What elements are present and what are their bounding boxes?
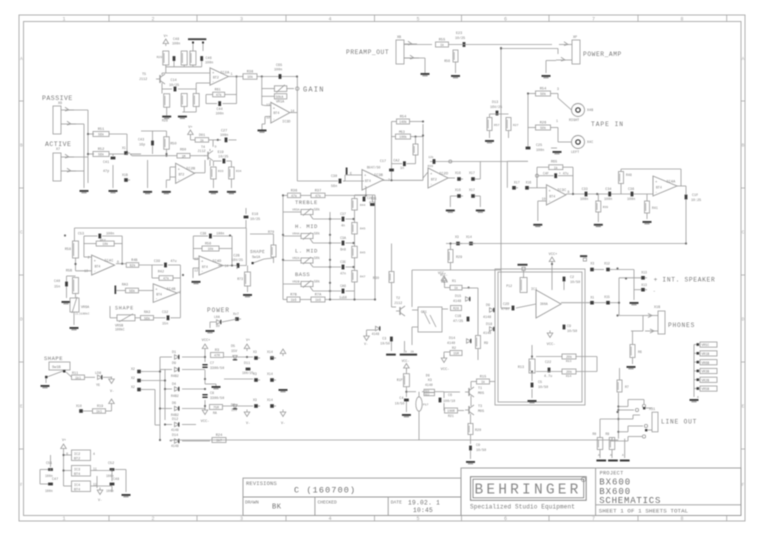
svg-text:56k: 56k <box>98 153 104 157</box>
svg-text:R45: R45 <box>360 252 366 255</box>
svg-text:IC4A: IC4A <box>666 180 676 184</box>
svg-text:D9: D9 <box>172 362 176 366</box>
svg-text:15n: 15n <box>54 286 60 290</box>
svg-text:R20: R20 <box>475 429 481 433</box>
svg-text:IC4: IC4 <box>74 484 80 488</box>
svg-text:47p: 47p <box>103 170 109 174</box>
svg-text:R4B2: R4B2 <box>171 413 179 417</box>
svg-text:R34: R34 <box>236 170 242 173</box>
svg-text:100n: 100n <box>604 198 612 202</box>
svg-text:75R: 75R <box>213 406 219 410</box>
svg-text:47k: 47k <box>216 93 222 97</box>
svg-text:R52: R52 <box>98 148 104 152</box>
svg-text:100n: 100n <box>45 489 53 493</box>
svg-text:1k7: 1k7 <box>216 439 222 443</box>
svg-text:R55: R55 <box>439 39 445 43</box>
svg-text:C25: C25 <box>536 144 542 148</box>
svg-text:K3: K3 <box>428 378 432 382</box>
svg-text:C30: C30 <box>331 175 337 179</box>
svg-text:1k6: 1k6 <box>315 298 321 302</box>
svg-text:1: 1 <box>556 119 558 123</box>
svg-text:RA3: RA3 <box>144 311 150 315</box>
svg-text:8: 8 <box>568 190 570 194</box>
svg-text:3: 3 <box>240 516 243 522</box>
svg-text:C51: C51 <box>46 462 52 466</box>
svg-text:R24: R24 <box>216 434 222 438</box>
svg-text:1k: 1k <box>454 286 458 290</box>
svg-text:A: A <box>742 56 745 62</box>
svg-text:D14: D14 <box>172 434 178 438</box>
svg-text:X13: X13 <box>641 283 647 287</box>
svg-text:50k: 50k <box>540 126 546 130</box>
svg-text:C21: C21 <box>367 196 373 200</box>
svg-text:D8: D8 <box>426 373 430 377</box>
svg-text:TAPE IN: TAPE IN <box>591 121 624 128</box>
svg-text:VR3A: VR3A <box>292 209 299 212</box>
svg-text:140k: 140k <box>399 120 407 124</box>
svg-text:R28: R28 <box>162 119 168 123</box>
svg-text:56k: 56k <box>98 133 104 137</box>
svg-text:10/50: 10/50 <box>538 385 548 390</box>
svg-text:D: D <box>742 316 745 322</box>
svg-text:X31: X31 <box>649 408 655 412</box>
svg-text:100n: 100n <box>172 43 180 47</box>
svg-text:IC4B: IC4B <box>166 288 176 292</box>
svg-text:C (160700): C (160700) <box>294 486 356 496</box>
svg-text:3: 3 <box>557 87 559 91</box>
svg-text:Sw1A: Sw1A <box>252 256 261 260</box>
svg-text:D11: D11 <box>244 362 250 366</box>
svg-text:5: 5 <box>416 16 419 22</box>
svg-text:82k: 82k <box>130 264 136 268</box>
svg-text:J112: J112 <box>197 150 205 154</box>
svg-text:J112: J112 <box>394 302 402 306</box>
svg-text:12k: 12k <box>428 155 434 159</box>
svg-text:C48: C48 <box>113 478 119 482</box>
svg-text:47R: 47R <box>214 354 220 358</box>
svg-text:IC3B: IC3B <box>374 174 384 178</box>
svg-text:BT4: BT4 <box>274 111 280 115</box>
svg-text:C2D: C2D <box>503 303 509 307</box>
svg-text:C17: C17 <box>380 160 386 164</box>
svg-text:47u: 47u <box>170 260 176 264</box>
svg-text:4.7u: 4.7u <box>544 375 552 379</box>
svg-text:V+: V+ <box>246 339 250 343</box>
svg-text:(L)100kC: (L)100kC <box>75 312 90 316</box>
svg-text:3: 3 <box>240 16 243 22</box>
svg-text:47k: 47k <box>315 194 321 198</box>
svg-text:C: C <box>20 229 23 235</box>
svg-text:X17: X17 <box>469 171 475 175</box>
svg-text:E19: E19 <box>218 151 224 155</box>
svg-text:R36: R36 <box>291 190 297 194</box>
svg-text:1M: 1M <box>182 154 186 158</box>
svg-text:VCC-: VCC- <box>201 420 210 424</box>
svg-text:POWER_AMP: POWER_AMP <box>583 51 622 58</box>
svg-text:IC4D: IC4D <box>212 260 222 264</box>
svg-text:15V: 15V <box>231 409 238 413</box>
svg-text:R14: R14 <box>566 375 572 378</box>
svg-text:VCC-: VCC- <box>547 343 556 347</box>
svg-text:X3: X3 <box>253 372 257 376</box>
svg-text:-: - <box>273 118 275 122</box>
svg-text:VCC-: VCC- <box>438 272 446 276</box>
svg-text:D12: D12 <box>172 418 178 422</box>
svg-text:L. MID: L. MID <box>295 248 318 255</box>
svg-text:C47: C47 <box>52 478 58 482</box>
svg-text:BT4: BT4 <box>74 489 80 493</box>
svg-text:4148: 4148 <box>171 428 179 432</box>
svg-text:+ 47u: + 47u <box>559 171 569 175</box>
svg-text:C: C <box>742 229 745 235</box>
svg-text:R50: R50 <box>170 143 176 147</box>
svg-text:R56: R56 <box>444 59 450 63</box>
svg-text:-: - <box>653 290 656 295</box>
svg-text:47k: 47k <box>291 194 297 198</box>
svg-text:IC2B: IC2B <box>186 168 196 172</box>
svg-text:D1: D1 <box>172 351 176 355</box>
svg-text:4140: 4140 <box>483 332 491 336</box>
svg-text:C3A: C3A <box>340 236 346 240</box>
svg-text:C40: C40 <box>54 280 60 284</box>
svg-text:R7: R7 <box>625 385 629 389</box>
svg-text:4148: 4148 <box>372 332 380 336</box>
svg-text:A: A <box>697 396 699 399</box>
svg-text:RA3: RA3 <box>122 284 128 288</box>
svg-text:10/50: 10/50 <box>380 341 390 345</box>
svg-text:CA2: CA2 <box>393 160 399 164</box>
svg-text:10/50: 10/50 <box>570 280 580 285</box>
svg-text:R58: R58 <box>65 248 71 252</box>
svg-text:X17: X17 <box>514 181 520 185</box>
svg-text:1k: 1k <box>554 166 558 170</box>
svg-text:BEHRINGER: BEHRINGER <box>474 483 581 499</box>
svg-text:+ INT. SPEAKER: + INT. SPEAKER <box>654 277 716 284</box>
svg-text:50k: 50k <box>314 208 320 212</box>
svg-text:1k1: 1k1 <box>75 376 81 380</box>
svg-text:4n: 4n <box>341 224 345 228</box>
svg-text:C1F: C1F <box>692 194 698 198</box>
svg-text:SHEET 1 OF 1 SHEETS TOTAL: SHEET 1 OF 1 SHEETS TOTAL <box>599 508 689 515</box>
svg-text:C36: C36 <box>628 188 634 192</box>
svg-text:GAIN: GAIN <box>303 86 325 94</box>
svg-text:M53: M53 <box>399 130 405 134</box>
svg-text:LINE OUT: LINE OUT <box>661 419 697 426</box>
svg-text:X17: X17 <box>469 188 475 192</box>
svg-text:T2: T2 <box>396 297 400 301</box>
svg-text:10:25: 10:25 <box>691 199 701 203</box>
svg-text:R60: R60 <box>180 149 186 153</box>
svg-text:X1B: X1B <box>122 173 128 177</box>
svg-text:C52: C52 <box>108 462 114 466</box>
svg-text:F: F <box>742 482 745 488</box>
svg-text:V+: V+ <box>188 126 192 130</box>
svg-text:C1B: C1B <box>455 315 461 319</box>
svg-text:10k: 10k <box>102 242 108 246</box>
svg-text:R30: R30 <box>373 277 379 281</box>
svg-text:4: 4 <box>328 16 331 22</box>
svg-text:M05: M05 <box>478 410 484 414</box>
svg-text:R1P: R1P <box>397 378 403 382</box>
svg-text:4140: 4140 <box>447 342 455 346</box>
svg-text:X16: X16 <box>526 181 532 185</box>
svg-text:R29: R29 <box>157 56 163 59</box>
svg-text:4: 4 <box>328 516 331 522</box>
svg-text:15V: 15V <box>231 350 238 354</box>
svg-text:R1: R1 <box>452 280 456 284</box>
svg-text:1k: 1k <box>440 43 444 47</box>
svg-text:7: 7 <box>592 16 595 22</box>
svg-text:10/25: 10/25 <box>455 36 465 41</box>
svg-text:100/25: 100/25 <box>242 371 254 375</box>
svg-text:R7B: R7B <box>290 294 297 298</box>
svg-text:R9: R9 <box>484 342 488 346</box>
svg-text:IC3D: IC3D <box>282 121 290 125</box>
svg-text:Xx7: Xx7 <box>233 312 239 316</box>
svg-text:R51: R51 <box>98 128 104 132</box>
svg-text:C27: C27 <box>221 130 227 134</box>
svg-text:-: - <box>94 270 96 274</box>
svg-text:-: - <box>212 81 214 85</box>
svg-text:D6: D6 <box>172 402 176 406</box>
svg-text:16V/25: 16V/25 <box>231 258 243 262</box>
svg-text:3300/50: 3300/50 <box>210 366 224 371</box>
svg-text:56n: 56n <box>331 185 337 189</box>
svg-text:14: 14 <box>225 264 229 268</box>
svg-text:C65: C65 <box>276 64 282 68</box>
svg-text:F: F <box>20 482 23 488</box>
svg-text:28: 28 <box>404 351 408 354</box>
svg-text:-: - <box>178 178 180 182</box>
svg-text:SHAPE: SHAPE <box>115 306 134 312</box>
svg-text:V-: V- <box>281 422 285 426</box>
svg-text:X14: X14 <box>267 372 273 376</box>
svg-text:B: B <box>20 142 23 148</box>
svg-text:X1B: X1B <box>654 306 660 310</box>
svg-text:VR6A: VR6A <box>81 306 90 310</box>
svg-text:R39: R39 <box>603 206 609 209</box>
svg-text:R5B: R5B <box>66 270 72 274</box>
svg-text:SHAPE: SHAPE <box>44 355 63 362</box>
svg-text:47n: 47n <box>340 272 346 276</box>
svg-text:C39: C39 <box>154 260 160 264</box>
svg-text:E18: E18 <box>252 213 258 217</box>
svg-text:R65: R65 <box>551 161 557 165</box>
svg-text:R22: R22 <box>425 393 430 396</box>
svg-text:3300/50: 3300/50 <box>210 396 224 401</box>
svg-text:X4C: X4C <box>587 141 593 145</box>
svg-text:300A: 300A <box>540 302 548 306</box>
svg-text:4148: 4148 <box>483 316 491 320</box>
svg-text:10: 10 <box>542 197 546 201</box>
svg-text:12: 12 <box>194 269 198 273</box>
svg-text:10k: 10k <box>247 75 253 79</box>
svg-text:R48: R48 <box>626 173 632 177</box>
svg-text:C7: C7 <box>210 362 214 366</box>
svg-text:L0A: L0A <box>214 315 220 319</box>
svg-text:BASS: BASS <box>295 271 310 278</box>
svg-text:1k1: 1k1 <box>96 410 102 414</box>
svg-text:1: 1 <box>62 516 65 522</box>
svg-text:PHONES: PHONES <box>668 322 695 329</box>
svg-text:LEFT: LEFT <box>571 151 579 155</box>
svg-text:-: - <box>155 298 157 302</box>
svg-text:J112: J112 <box>139 78 147 82</box>
svg-text:100n: 100n <box>274 69 282 73</box>
svg-text:-: - <box>655 191 657 195</box>
svg-text:CA6: CA6 <box>340 284 346 288</box>
svg-text:C41: C41 <box>103 161 109 165</box>
svg-text:VR3B: VR3B <box>702 370 710 374</box>
svg-text:VCC-: VCC- <box>402 359 410 363</box>
svg-text:VR6B: VR6B <box>702 361 710 365</box>
svg-text:8: 8 <box>680 16 683 22</box>
svg-text:VR4A: VR4A <box>292 233 299 236</box>
svg-text:IC3: IC3 <box>74 469 80 473</box>
svg-text:6: 6 <box>504 16 507 22</box>
svg-text:100n: 100n <box>580 198 588 202</box>
svg-text:2: 2 <box>88 256 90 260</box>
svg-text:28: 28 <box>411 351 415 354</box>
svg-text:C22: C22 <box>545 361 551 365</box>
svg-text:X16: X16 <box>455 171 461 175</box>
svg-text:T3: T3 <box>478 405 482 409</box>
svg-text:47/25: 47/25 <box>453 319 463 324</box>
svg-text:C43: C43 <box>138 139 144 143</box>
svg-text:R42: R42 <box>158 271 164 275</box>
svg-text:PREAMP_OUT: PREAMP_OUT <box>346 49 389 56</box>
svg-text:4148: 4148 <box>453 300 461 304</box>
svg-text:1: 1 <box>231 72 233 76</box>
svg-text:IC2D: IC2D <box>439 172 449 176</box>
svg-text:R6: R6 <box>638 350 642 354</box>
svg-text:X3: X3 <box>590 262 594 266</box>
svg-text:8: 8 <box>680 516 683 522</box>
svg-text:C33: C33 <box>582 188 588 192</box>
svg-text:-: - <box>201 270 203 274</box>
svg-text:VR5B: VR5B <box>702 387 710 391</box>
svg-text:R4B2: R4B2 <box>171 394 179 398</box>
svg-text:50k: 50k <box>314 256 320 260</box>
svg-text:BT4: BT4 <box>95 265 101 269</box>
svg-text:C3E: C3E <box>340 260 346 264</box>
svg-text:R0: R0 <box>593 432 597 436</box>
svg-text:V+: V+ <box>62 439 66 443</box>
svg-text:1k: 1k <box>481 380 485 384</box>
svg-text:100R: 100R <box>447 409 455 413</box>
svg-text:X14: X14 <box>466 235 472 239</box>
svg-text:1: 1 <box>62 16 65 22</box>
svg-text:BT2: BT2 <box>431 177 437 181</box>
svg-text:R41: R41 <box>652 206 658 210</box>
svg-text:R15: R15 <box>480 376 486 380</box>
svg-text:BK: BK <box>272 504 282 512</box>
svg-text:10/50: 10/50 <box>567 329 577 334</box>
svg-text:1k: 1k <box>200 139 204 143</box>
svg-text:D14: D14 <box>449 337 455 341</box>
svg-text:100n: 100n <box>536 149 544 153</box>
svg-text:BU47/50: BU47/50 <box>367 166 380 170</box>
svg-text:100n: 100n <box>216 112 224 116</box>
svg-text:X15: X15 <box>604 295 610 299</box>
svg-text:IC4C: IC4C <box>104 260 114 264</box>
svg-text:4140: 4140 <box>425 383 433 387</box>
svg-text:X2: X2 <box>131 385 135 389</box>
svg-text:50k: 50k <box>314 232 320 236</box>
svg-text:1k6: 1k6 <box>291 298 297 302</box>
svg-text:X3: X3 <box>253 350 257 354</box>
svg-text:56k: 56k <box>144 316 150 320</box>
svg-text:47n: 47n <box>369 201 375 205</box>
svg-text:BT4: BT4 <box>156 292 162 296</box>
svg-text:X7: X7 <box>56 148 60 152</box>
svg-text:X6: X6 <box>58 102 62 106</box>
svg-text:VR2A: VR2A <box>292 257 299 260</box>
svg-text:IC2A: IC2A <box>220 71 230 75</box>
svg-text:C37: C37 <box>340 212 346 216</box>
svg-text:R29: R29 <box>456 256 462 260</box>
svg-text:VR2B: VR2B <box>702 378 710 382</box>
svg-text:E: E <box>742 403 745 409</box>
svg-text:R4B2: R4B2 <box>171 374 179 378</box>
svg-text:7: 7 <box>592 516 595 522</box>
svg-text:X13: X13 <box>641 271 647 275</box>
svg-text:VR2B: VR2B <box>292 281 299 284</box>
svg-text:R54: R54 <box>540 88 546 92</box>
svg-text:H. MID: H. MID <box>295 223 318 230</box>
svg-text:R37: R37 <box>315 190 321 194</box>
svg-text:20k: 20k <box>566 355 572 359</box>
svg-text:R28: R28 <box>453 307 459 311</box>
svg-text:P12: P12 <box>506 284 512 288</box>
svg-text:19.02. 1: 19.02. 1 <box>408 500 440 507</box>
svg-text:1n: 1n <box>400 167 404 171</box>
svg-text:E: E <box>350 172 352 176</box>
svg-text:16V/25: 16V/25 <box>490 105 502 110</box>
svg-text:C48: C48 <box>173 38 179 42</box>
svg-text:R38: R38 <box>247 70 253 74</box>
svg-text:D15: D15 <box>455 295 461 299</box>
svg-text:47k: 47k <box>163 277 169 281</box>
svg-text:10/25: 10/25 <box>250 217 260 222</box>
svg-text:C0: C0 <box>476 444 480 448</box>
svg-text:X1: X1 <box>122 146 126 150</box>
svg-text:15R: 15R <box>453 352 459 356</box>
svg-text:C34: C34 <box>605 188 611 192</box>
svg-text:BT4: BT4 <box>202 265 208 269</box>
svg-text:10:45: 10:45 <box>413 507 433 514</box>
svg-text:X3: X3 <box>455 235 459 239</box>
svg-text:-: - <box>430 183 432 187</box>
svg-text:C2: C2 <box>570 276 574 280</box>
svg-text:XB: XB <box>397 36 401 40</box>
svg-text:M05: M05 <box>478 392 484 396</box>
svg-text:100n: 100n <box>627 198 635 202</box>
svg-text:IC3C: IC3C <box>557 189 567 193</box>
svg-text:PASSIVE: PASSIVE <box>42 95 73 102</box>
svg-text:A: A <box>20 56 23 62</box>
svg-text:13: 13 <box>266 103 270 107</box>
svg-text:10/50: 10/50 <box>395 401 405 405</box>
svg-text:R3: R3 <box>215 349 219 353</box>
svg-text:6n8: 6n8 <box>340 248 346 252</box>
svg-text:BT2: BT2 <box>213 76 219 80</box>
svg-text:X12: X12 <box>604 262 610 266</box>
svg-text:X1: X1 <box>590 295 594 299</box>
svg-text:15n: 15n <box>162 323 168 327</box>
svg-text:1u50: 1u50 <box>339 296 347 300</box>
svg-text:R73: R73 <box>237 277 243 281</box>
